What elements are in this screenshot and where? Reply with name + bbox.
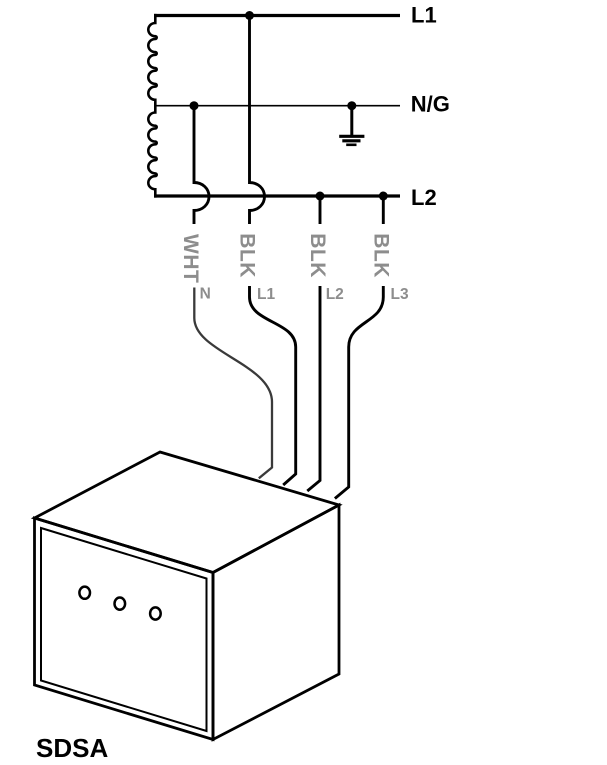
svg-text:L3: L3	[391, 286, 409, 303]
wire BLK-L1 stub from L1 dot with hop over L2	[250, 16, 265, 225]
svg-text:L2: L2	[326, 286, 344, 303]
ground symbol	[339, 106, 364, 145]
svg-text:WHT: WHT	[179, 234, 202, 283]
junction dot on L1 at x=249.5	[245, 11, 254, 20]
SDSA enclosure box: front inner border	[41, 528, 207, 731]
transformer coil T1 winding lower section	[148, 106, 156, 198]
SDSA enclosure box: top face	[35, 452, 340, 573]
junction dot on N/G at x=194	[190, 101, 199, 110]
svg-text:BLK: BLK	[306, 233, 329, 278]
svg-text:BLK: BLK	[369, 233, 392, 278]
wire L3 black conductor to box	[335, 286, 383, 499]
SDSA enclosure box: front face	[35, 518, 214, 740]
svg-text:L2: L2	[411, 185, 437, 210]
junction dot on N/G at x=351.8 (ground tap)	[347, 101, 356, 110]
svg-text:SDSA: SDSA	[36, 733, 108, 763]
wire N/G bus	[154, 105, 400, 107]
SDSA enclosure box: right face	[213, 505, 339, 740]
transformer coil T1 winding upper section	[148, 14, 156, 106]
hole 1 on front face	[79, 587, 90, 599]
wire BLK-L2 stub from L2 dot	[319, 196, 322, 224]
hole 2 on front face	[115, 598, 126, 610]
wire BLK-L3 stub from L2 dot	[382, 196, 385, 224]
wire L2 black conductor to box	[307, 286, 320, 491]
svg-text:N: N	[200, 285, 211, 302]
svg-text:L1: L1	[411, 3, 437, 28]
wire WHT stub from N/G dot with hop over L2	[194, 106, 209, 224]
svg-text:L1: L1	[257, 286, 275, 303]
junction dot on L2 at x=320	[316, 192, 325, 201]
svg-text:BLK: BLK	[236, 233, 259, 278]
wire L1 bus	[154, 14, 400, 17]
wire N (white conductor, gray) to box	[194, 288, 272, 479]
wire L1 black conductor to box	[250, 286, 296, 485]
svg-text:N/G: N/G	[411, 91, 450, 116]
wire L2 bus	[154, 194, 400, 197]
hole 3 on front face	[150, 607, 161, 619]
junction dot on L2 at x=383.3	[379, 192, 388, 201]
